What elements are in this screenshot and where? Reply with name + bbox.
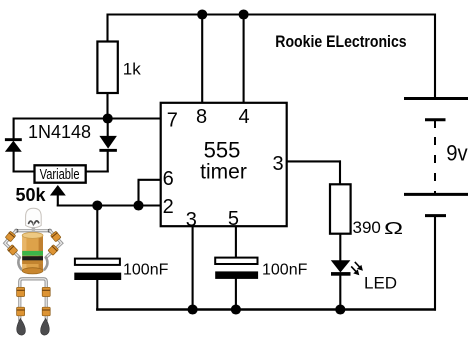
svg-text:5: 5 <box>228 208 239 230</box>
robot eyes <box>29 221 33 223</box>
wire pin5 to C2 <box>235 226 237 259</box>
svg-text:4: 4 <box>238 106 249 128</box>
capacitor C2 bottom lead <box>235 279 237 311</box>
wire top power rail <box>107 13 437 15</box>
wire pin 7 horizontal <box>14 117 161 119</box>
node junction pin8 on top rail <box>197 9 207 19</box>
svg-text:50k: 50k <box>16 185 47 205</box>
battery BT1 dashed cell link <box>434 137 436 194</box>
wire pin6 stub <box>138 179 161 181</box>
potentiometer RV1 body (Variable box) <box>35 165 86 182</box>
wire pin4 to top rail <box>243 15 245 104</box>
wire pin3 bottom to ground rail <box>192 226 194 309</box>
svg-text:8: 8 <box>196 106 207 128</box>
IC U1 555 timer body <box>161 103 287 226</box>
svg-text:3: 3 <box>272 153 283 175</box>
capacitor C2 bottom plate <box>215 271 258 279</box>
resistor R1 top lead <box>106 14 108 43</box>
svg-text:100nF: 100nF <box>123 261 169 278</box>
wire pin6 link vertical <box>137 180 139 206</box>
battery BT1 short plate bottom <box>425 214 446 217</box>
capacitor C1 bottom lead <box>96 280 98 311</box>
robot right arm <box>46 231 62 258</box>
robot right leg <box>45 290 48 320</box>
wire battery positive lead <box>434 14 436 99</box>
capacitor C1 top plate <box>75 259 120 265</box>
node junction LED ground <box>335 304 345 314</box>
svg-text:Rookie ELectronics: Rookie ELectronics <box>275 33 407 52</box>
logo robot mascot <box>5 208 62 335</box>
resistor R1 1k body <box>97 42 117 94</box>
robot arm band right fore <box>48 245 59 256</box>
wire pin8 to top rail <box>201 15 203 104</box>
svg-text:9v: 9v <box>446 141 468 166</box>
LED LED1 triangle <box>331 260 351 272</box>
node junction pin4 on top rail <box>239 9 249 19</box>
resistor R2 390 body <box>330 184 351 233</box>
node junction pin6 link <box>133 200 143 210</box>
node junction R1 / D2 / pin7 <box>103 113 113 123</box>
node junction pin3 ground <box>188 304 198 314</box>
robot left leg <box>18 290 21 320</box>
svg-text:Variable: Variable <box>40 165 80 182</box>
svg-text:390: 390 <box>353 218 381 237</box>
robot shoulder bar <box>17 229 51 232</box>
node junction wiper / C1 <box>92 200 102 210</box>
node junction C2 ground <box>231 304 241 314</box>
robot hand arcs <box>18 258 21 270</box>
resistor R2 bottom lead <box>339 234 341 262</box>
battery BT1 long plate top <box>404 97 468 100</box>
svg-text:6: 6 <box>163 168 174 190</box>
svg-text:555: 555 <box>204 138 241 163</box>
battery BT1 long plate bottom <box>404 193 468 196</box>
robot left arm <box>5 231 20 258</box>
robot neck <box>32 227 35 231</box>
robot arm band left fore <box>7 245 18 256</box>
battery BT1 stub below short plate <box>434 120 436 128</box>
svg-text:3: 3 <box>186 209 197 231</box>
capacitor C2 100nF top plate <box>215 258 257 264</box>
robot body capacitor <box>22 232 43 274</box>
diode D1 1N4148 (left, pointing up) <box>5 118 35 173</box>
robot left foot <box>17 319 26 336</box>
svg-text:7: 7 <box>167 110 178 132</box>
robot head bulb <box>26 208 42 227</box>
svg-text:1k: 1k <box>123 60 141 79</box>
LED LED1 cathode bar <box>331 272 351 276</box>
LED light arrow 2 <box>351 266 359 275</box>
robot leg bands <box>17 287 51 316</box>
battery BT1 negative lead <box>434 216 436 311</box>
svg-text:1N4148: 1N4148 <box>28 122 91 142</box>
svg-text:Ω: Ω <box>384 218 403 238</box>
capacitor C1 100nF top lead <box>96 206 98 260</box>
svg-text:LED: LED <box>364 273 397 292</box>
LED LED1 bottom lead <box>339 276 341 311</box>
potentiometer RV1 wiper arrow <box>50 185 66 196</box>
robot arm band left upper <box>5 231 16 242</box>
robot right foot <box>41 319 50 336</box>
LED light arrow 1 <box>355 262 363 271</box>
potentiometer RV1 wiper stem <box>57 195 59 207</box>
robot hip tube <box>20 279 46 291</box>
resistor R1 bottom lead <box>106 93 108 120</box>
robot arm band right upper <box>51 231 62 242</box>
svg-text:timer: timer <box>200 161 247 184</box>
wire pin3 output horizontal <box>287 160 341 162</box>
wire wiper to pin2 <box>57 204 161 206</box>
wire bottom ground rail <box>96 308 436 311</box>
svg-text:2: 2 <box>163 196 174 218</box>
svg-text:100nF: 100nF <box>262 261 308 278</box>
capacitor C1 bottom plate <box>74 273 121 280</box>
battery BT1 short plate top <box>425 118 446 121</box>
wire pin3 output vertical to R2 <box>339 160 341 185</box>
robot beak <box>32 224 35 226</box>
diode D2 1N4148 (pointing down) <box>85 119 117 173</box>
